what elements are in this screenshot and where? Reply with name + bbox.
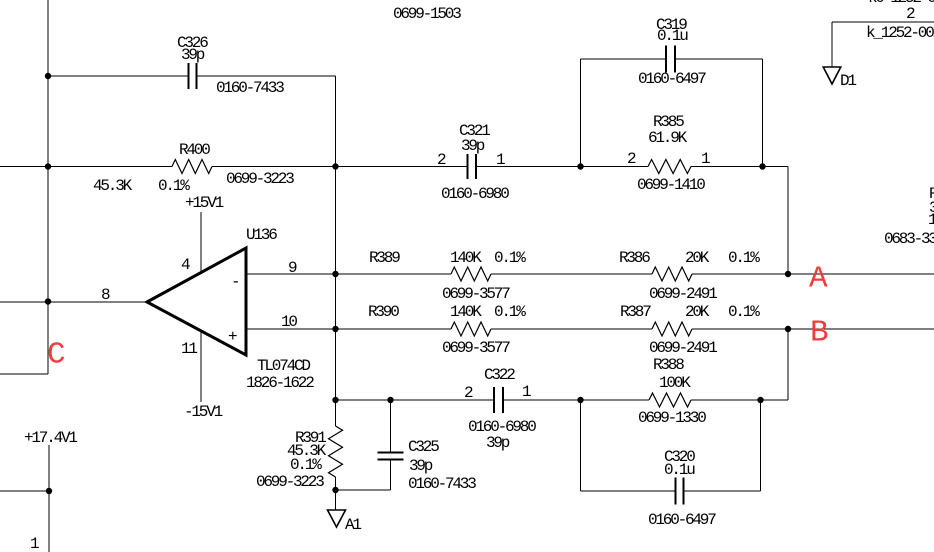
op-amp U136 [147, 248, 246, 355]
wire corner down to node A row [787, 167, 789, 275]
svg-text:20K: 20K [685, 303, 710, 321]
svg-text:0160-7433: 0160-7433 [216, 79, 284, 97]
svg-text:39p: 39p [181, 46, 205, 64]
wire node C branch horizontal [0, 373, 48, 375]
resistor R390 [451, 322, 491, 336]
wire node B row left [336, 328, 452, 330]
svg-text:0160-6497: 0160-6497 [648, 511, 716, 529]
wire R390 to R387 [491, 328, 652, 330]
svg-text:0699-1503: 0699-1503 [393, 5, 461, 23]
junction C322 row / C320 left [577, 397, 583, 403]
svg-text:0.1u: 0.1u [664, 461, 695, 479]
svg-text:0699-1330: 0699-1330 [638, 409, 706, 427]
svg-text:R390: R390 [368, 303, 399, 321]
svg-text:100K: 100K [659, 374, 691, 392]
junction main row / mid bus [332, 163, 338, 169]
resistor R388 [649, 393, 691, 407]
junction left bus / output [45, 298, 51, 304]
ground A1 [328, 510, 346, 527]
capacitor C321 [468, 154, 477, 179]
wire C326 drop to main row [335, 76, 337, 167]
svg-text:0699-3223: 0699-3223 [226, 170, 294, 188]
svg-text:11: 11 [181, 340, 197, 358]
svg-text:0683-3324: 0683-3324 [884, 230, 934, 248]
svg-text:1826-1622: 1826-1622 [246, 374, 314, 392]
svg-text:1%: 1% [928, 211, 934, 229]
svg-text:0699-1410: 0699-1410 [637, 176, 705, 194]
wire C325 bottom [390, 460, 392, 491]
resistor R391 [329, 426, 343, 477]
svg-text:R388: R388 [653, 356, 684, 374]
svg-text:140K: 140K [450, 249, 482, 267]
wire C320 bottom right [684, 490, 761, 492]
wire R387 to right edge [692, 328, 934, 330]
svg-text:R389: R389 [369, 249, 400, 267]
junction left bus / R400 [45, 163, 51, 169]
svg-text:0160-6497: 0160-6497 [638, 70, 706, 88]
svg-text:61.9K: 61.9K [648, 129, 688, 147]
svg-text:0699-3577: 0699-3577 [442, 285, 510, 303]
wire mid bus vertical [335, 167, 337, 427]
resistor R400 [172, 160, 212, 174]
svg-text:20K: 20K [685, 249, 710, 267]
junction C322 row / C325 [387, 397, 393, 403]
svg-text:+15V1: +15V1 [185, 194, 224, 212]
svg-text:R386: R386 [619, 249, 650, 267]
wire C325 top [390, 400, 392, 453]
wire pin 10 to mid bus [246, 328, 336, 330]
svg-text:0.1%: 0.1% [728, 303, 760, 321]
wire R389 to R386 [491, 273, 652, 275]
capacitor C326 [189, 63, 197, 89]
wire C319 left vertical [580, 59, 582, 167]
wire node A row left [336, 273, 452, 275]
wire C326 left [48, 75, 189, 77]
capacitor C325 [378, 453, 404, 460]
junction mid bus / pin 9 row [332, 271, 338, 277]
wire node B down to R388 output [787, 329, 789, 400]
wire +15V1 supply to pin 4 [200, 212, 202, 272]
wire op-amp output pin 8 [0, 301, 147, 303]
svg-text:D1: D1 [840, 72, 856, 90]
svg-text:TL074CD: TL074CD [257, 357, 310, 375]
capacitor C320 [676, 478, 684, 505]
svg-text:39p: 39p [409, 457, 433, 475]
svg-text:0.1%: 0.1% [494, 249, 526, 267]
svg-text:0699-3223: 0699-3223 [256, 473, 324, 491]
svg-text:0699-2491: 0699-2491 [649, 285, 717, 303]
junction R388 output / C320 right [757, 397, 763, 403]
svg-text:0.1%: 0.1% [290, 456, 322, 474]
svg-text:0699-3577: 0699-3577 [442, 339, 510, 357]
wire D1 stem [831, 22, 833, 67]
svg-text:U136: U136 [246, 226, 277, 244]
wire C320 right vertical [760, 400, 762, 491]
junction node B [785, 326, 791, 332]
svg-text:k_1252-002: k_1252-002 [866, 24, 934, 42]
wire R388 to corner [691, 399, 788, 401]
svg-text:C322: C322 [484, 366, 515, 384]
svg-text:A1: A1 [345, 516, 361, 534]
svg-text:A: A [809, 261, 828, 296]
capacitor C322 [494, 387, 503, 413]
junction R391 / C325 / ground [332, 487, 338, 493]
svg-text:R387: R387 [620, 303, 651, 321]
wire C325 to R391 bottom [336, 489, 391, 491]
svg-text:140K: 140K [450, 303, 482, 321]
junction mid bus / pin 10 row [332, 326, 338, 332]
ground D1 [823, 67, 841, 84]
svg-text:39p: 39p [461, 137, 485, 155]
svg-text:C: C [47, 337, 66, 372]
wire C319 top left [581, 58, 667, 60]
wire +17.4V1 vertical [48, 445, 50, 552]
wire pin 9 to mid bus [246, 273, 336, 275]
svg-text:-15V1: -15V1 [184, 403, 223, 421]
svg-text:45.3K: 45.3K [93, 177, 133, 195]
wire R385 to corner [691, 166, 788, 168]
svg-text:k0-1252-002: k0-1252-002 [868, 0, 934, 7]
junction left bus / C326 [45, 73, 51, 79]
wire C321 to R385 [476, 166, 648, 168]
svg-text:0.1u: 0.1u [657, 27, 688, 45]
resistor R389 [451, 267, 491, 281]
wire main row left segment [0, 166, 172, 168]
wire C320 left vertical [580, 400, 582, 491]
svg-text:R400: R400 [179, 141, 210, 159]
wire ground stem A1 [335, 490, 337, 510]
wire R391 to ground junction [335, 477, 337, 490]
svg-text:-: - [231, 273, 238, 291]
wire R400 to C321 [212, 166, 468, 168]
junction mid bus / C322 row [332, 397, 338, 403]
svg-text:0160-7433: 0160-7433 [408, 475, 476, 493]
wire R386 to right edge [692, 273, 934, 275]
wire C326 right [197, 75, 336, 77]
svg-text:0699-2491: 0699-2491 [649, 339, 717, 357]
wire left bus vertical [47, 0, 49, 374]
junction +17.4V1 net [46, 488, 52, 494]
junction node A [785, 271, 791, 277]
resistor R386 [652, 267, 692, 281]
svg-text:10: 10 [281, 313, 297, 331]
resistor R385 [648, 160, 691, 174]
svg-text:0.1%: 0.1% [494, 303, 526, 321]
junction main row / C319 right [759, 163, 765, 169]
wire +17.4V1 branch to left edge [0, 490, 49, 492]
svg-text:0160-6980: 0160-6980 [441, 185, 509, 203]
svg-text:C325: C325 [408, 438, 439, 456]
svg-text:0.1%: 0.1% [728, 249, 760, 267]
svg-text:39p: 39p [486, 434, 510, 452]
svg-text:B: B [810, 315, 829, 350]
wire D1 net horizontal [832, 21, 934, 23]
junction main row / C319 left [577, 163, 583, 169]
wire C320 bottom left [581, 490, 676, 492]
wire C319 right vertical [762, 59, 764, 167]
wire C322 row left [336, 399, 495, 401]
capacitor C319 [666, 46, 675, 73]
wire C322 to R388 [503, 399, 649, 401]
wire pin 11 to -15V1 [200, 331, 202, 402]
resistor R387 [652, 322, 692, 336]
svg-text:0.1%: 0.1% [158, 177, 190, 195]
wire C319 top right [675, 58, 763, 60]
svg-text:+17.4V1: +17.4V1 [24, 429, 77, 447]
